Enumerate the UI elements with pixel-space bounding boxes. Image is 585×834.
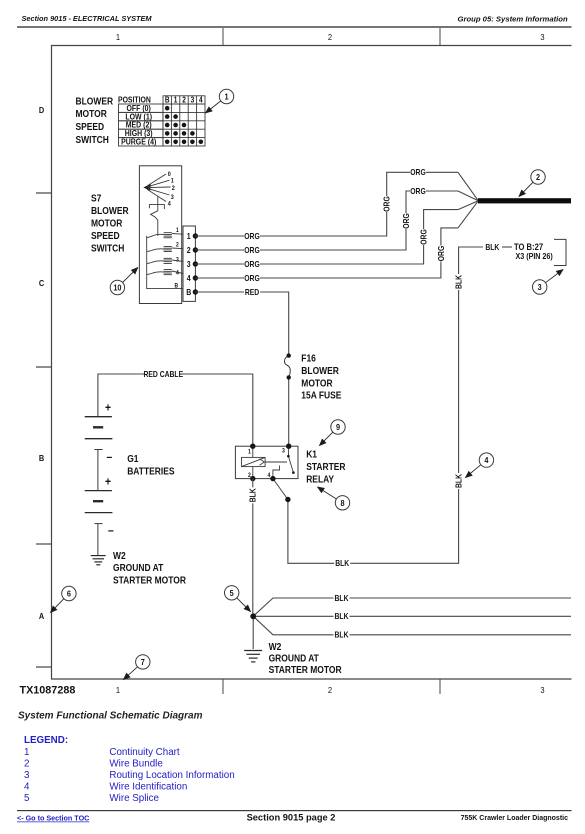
svg-text:LEGEND:: LEGEND: [24,735,68,746]
svg-text:STARTER MOTOR: STARTER MOTOR [269,664,342,675]
svg-text:PURGE (4): PURGE (4) [121,137,157,147]
svg-text:BLK: BLK [248,488,258,502]
svg-text:1: 1 [24,747,29,758]
svg-text:STARTER: STARTER [306,461,346,472]
svg-text:ORG: ORG [410,168,426,178]
svg-text:Routing Location Information: Routing Location Information [109,770,234,781]
svg-text:1: 1 [224,92,229,102]
svg-text:2: 2 [176,242,179,249]
svg-text:SPEED: SPEED [91,230,120,241]
svg-text:ORG: ORG [410,186,426,196]
svg-text:Section 9015 - ELECTRICAL SYST: Section 9015 - ELECTRICAL SYSTEM [22,14,153,23]
svg-text:BLOWER: BLOWER [76,96,114,107]
svg-text:5: 5 [24,793,30,804]
svg-text:RED CABLE: RED CABLE [143,369,183,379]
svg-text:F16: F16 [301,353,316,364]
svg-text:Section 9015 page 2: Section 9015 page 2 [247,813,336,823]
svg-text:+: + [105,402,111,415]
svg-text:ORG: ORG [401,213,411,229]
svg-text:B: B [165,96,170,105]
svg-text:755K Crawler Loader Diagnostic: 755K Crawler Loader Diagnostic [461,815,568,822]
svg-text:4: 4 [484,456,489,466]
svg-text:RELAY: RELAY [306,474,335,485]
svg-text:2: 2 [182,96,186,105]
svg-text:1: 1 [187,231,192,241]
svg-text:2: 2 [24,758,29,769]
svg-text:A: A [39,612,45,621]
svg-text:3: 3 [540,33,545,42]
svg-text:BLK: BLK [335,593,349,603]
svg-text:BLK: BLK [485,242,499,252]
svg-text:BLK: BLK [335,630,349,640]
svg-text:7: 7 [141,657,146,667]
svg-text:5: 5 [230,588,235,598]
svg-text:SWITCH: SWITCH [76,134,110,145]
svg-text:B: B [39,454,45,463]
svg-text:15A FUSE: 15A FUSE [301,390,341,401]
svg-text:X3 (PIN 26): X3 (PIN 26) [516,252,554,262]
svg-text:S7: S7 [91,193,101,204]
svg-text:ORG: ORG [244,259,260,269]
svg-text:C: C [39,279,45,288]
svg-text:Wire Splice: Wire Splice [109,793,159,804]
svg-text:ORG: ORG [244,273,260,283]
svg-text:4: 4 [199,96,203,105]
svg-text:ORG: ORG [436,246,446,262]
svg-text:W2: W2 [269,641,282,652]
svg-text:MOTOR: MOTOR [76,108,108,119]
svg-text:System Functional Schematic Di: System Functional Schematic Diagram [18,711,203,722]
svg-text:BLK: BLK [454,275,464,289]
svg-text:BATTERIES: BATTERIES [127,466,174,477]
svg-text:TO B:27: TO B:27 [514,241,543,252]
svg-text:2: 2 [328,33,333,42]
svg-text:1: 1 [174,96,178,105]
svg-text:Continuity Chart: Continuity Chart [109,747,180,758]
svg-text:BLK: BLK [335,612,349,622]
svg-text:2: 2 [187,245,191,255]
svg-text:Group 05: System Information: Group 05: System Information [457,15,568,24]
svg-text:–: – [108,525,114,538]
svg-text:1: 1 [116,686,121,695]
svg-text:SPEED: SPEED [76,121,105,132]
svg-text:3: 3 [282,448,285,455]
svg-text:1: 1 [116,33,121,42]
svg-text:–: – [107,451,113,464]
svg-text:9: 9 [336,422,341,432]
svg-text:8: 8 [340,498,345,508]
svg-text:B: B [186,287,191,297]
svg-text:1: 1 [176,228,179,235]
svg-text:BLOWER: BLOWER [91,205,129,216]
svg-text:GROUND AT: GROUND AT [269,653,320,664]
svg-text:ORG: ORG [382,196,392,212]
svg-text:W2: W2 [113,550,126,561]
svg-text:MOTOR: MOTOR [301,378,333,389]
svg-text:ORG: ORG [419,229,429,245]
svg-text:B: B [175,283,179,290]
svg-text:ORG: ORG [244,231,260,241]
svg-text:2: 2 [248,473,251,480]
svg-text:<- Go to Section TOC: <- Go to Section TOC [17,814,89,823]
svg-text:BLK: BLK [454,474,464,488]
svg-text:MOTOR: MOTOR [91,218,123,229]
svg-text:BLK: BLK [335,559,349,569]
svg-text:STARTER MOTOR: STARTER MOTOR [113,575,186,586]
svg-text:G1: G1 [127,453,138,464]
svg-text:3: 3 [187,259,191,269]
svg-text:2: 2 [536,172,541,182]
svg-text:4: 4 [187,273,192,283]
svg-text:6: 6 [67,589,72,599]
svg-text:SWITCH: SWITCH [91,243,125,254]
svg-text:Wire Bundle: Wire Bundle [109,758,163,769]
svg-text:10: 10 [113,283,122,293]
svg-text:TX1087288: TX1087288 [20,685,76,697]
svg-text:Wire Identification: Wire Identification [109,782,187,793]
svg-text:GROUND AT: GROUND AT [113,562,164,573]
svg-text:ORG: ORG [244,245,260,255]
svg-text:BLOWER: BLOWER [301,365,339,376]
svg-text:3: 3 [538,282,543,292]
svg-text:+: + [105,476,111,489]
svg-text:4: 4 [24,782,30,793]
svg-text:K1: K1 [306,449,317,460]
svg-text:3: 3 [540,686,545,695]
svg-text:3: 3 [176,257,179,264]
svg-text:RED: RED [245,287,260,297]
svg-text:D: D [39,106,45,115]
svg-text:2: 2 [328,686,333,695]
svg-text:3: 3 [24,770,30,781]
svg-text:1: 1 [248,449,251,456]
svg-text:3: 3 [191,96,195,105]
